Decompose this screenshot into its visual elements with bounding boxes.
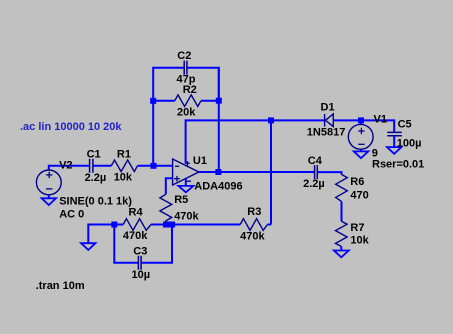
label D1 [321,101,335,113]
svg-text:R2: R2 [183,84,197,96]
wire op-amp V+ pin to supply rail [186,120,325,163]
svg-text:C3: C3 [133,246,147,258]
wire C2 top left [153,67,183,69]
svg-text:470k: 470k [240,231,265,243]
svg-text:470k: 470k [174,210,199,222]
label SINE value [59,195,132,207]
label Rser value V1 [372,159,424,171]
capacitor C5 [387,132,402,135]
wire R6 to R7 [341,201,343,221]
svg-text:C2: C2 [177,50,191,62]
wire feedback left vertical [152,68,154,166]
junction C3 right [169,222,175,228]
wire vertical rail to R3 [270,120,272,224]
svg-text:AC 0: AC 0 [59,209,84,221]
wire op-amp V- pin [185,179,187,186]
wire R7 ground stub [340,246,342,250]
capacitor C4 [315,165,318,179]
label R6 [350,176,364,188]
label C5 [398,118,412,130]
label R7 [350,222,364,234]
label 47p value [177,73,196,85]
wire R2 left lead [153,100,175,102]
wire V1 bottom stub [360,149,362,151]
svg-text:V1: V1 [374,114,387,126]
svg-text:U1: U1 [193,155,207,167]
svg-text:10k: 10k [114,172,133,184]
label C1 [87,148,101,160]
label R2 [183,84,197,96]
svg-text:R6: R6 [350,176,364,188]
label 2.2u value C1 [85,172,107,184]
diode D1 [325,114,334,127]
label R3 [247,206,261,218]
svg-text:SINE(0 0.1 1k): SINE(0 0.1 1k) [59,195,132,207]
label 470k value R5 [174,210,199,222]
label 9 value V1 [372,148,378,160]
junction R4 left [111,222,117,228]
label 2.2u value C4 [303,178,325,190]
junction op-amp output feedback [215,169,221,175]
label 10u value C3 [132,269,151,281]
ground op-amp V- [178,186,193,192]
wire op-amp output [199,171,314,173]
wire R4 ground stub [88,225,123,244]
ground C5 [387,147,401,154]
svg-text:V2: V2 [59,160,72,172]
wire V2 top to C1 [49,166,89,170]
directive .tran [36,280,85,292]
svg-text:100µ: 100µ [397,138,422,150]
op-amp U1 [173,159,199,185]
label R4 [129,207,144,219]
wire V2 bottom stub [48,195,50,198]
svg-text:D1: D1 [321,101,335,113]
label C3 [133,246,147,258]
wire R2 right lead [201,100,219,102]
svg-text:2.2µ: 2.2µ [303,178,325,190]
wire D1 to V1 to C5 [333,120,394,132]
wire to R3 [172,224,240,226]
svg-text:Rser=0.01: Rser=0.01 [372,159,424,171]
svg-text:2.2µ: 2.2µ [85,172,107,184]
resistor R3 [240,219,267,231]
voltage source V1 [348,124,373,149]
label U1 [193,155,207,167]
wire C2 top right [188,68,219,100]
capacitor C1 [90,159,93,173]
label ADA4096 value [194,181,242,193]
wire C5 bottom stub [393,136,395,147]
label V2 [59,160,72,172]
label R5 [174,194,188,206]
label 470k value R3 [240,231,265,243]
junction R5 bottom [163,222,169,228]
directive .ac [20,121,122,133]
ground V2 [42,198,56,205]
svg-text:470: 470 [350,190,368,202]
resistor R7 [336,221,348,246]
svg-text:ADA4096: ADA4096 [194,181,242,193]
label 100u value C5 [397,138,422,150]
svg-text:R5: R5 [174,194,188,206]
svg-text:R1: R1 [117,148,131,160]
label C4 [308,155,323,167]
label 10k value R1 [114,172,133,184]
svg-text:C4: C4 [308,155,323,167]
resistor R4 [123,219,151,231]
svg-text:C1: C1 [87,148,101,160]
junction supply rail at R3 [268,117,274,123]
ground R7 [334,251,349,258]
wire C3 loop [114,225,172,263]
label AC 0 value [59,209,84,221]
svg-text:470k: 470k [123,230,148,242]
voltage source V2 [36,170,61,195]
wire R3 right lead [268,224,272,226]
label R1 [117,148,131,160]
label 20k value [177,107,196,119]
svg-text:10µ: 10µ [132,269,151,281]
label C2 [177,50,191,62]
svg-text:20k: 20k [177,107,196,119]
ground R4 [81,243,95,250]
svg-text:C5: C5 [398,118,412,130]
resistor R6 [336,174,348,201]
capacitor C3 [138,256,141,270]
junction R2 right [216,98,222,104]
svg-text:R4: R4 [129,207,144,219]
junction supply rail at V1 [358,117,364,123]
wire R1 to op-amp inverting input [138,165,173,167]
svg-text:10k: 10k [350,235,369,247]
svg-text:R7: R7 [350,222,364,234]
svg-text:1N5817: 1N5817 [307,126,346,138]
label 470 value R6 [350,190,368,202]
svg-text:.tran 10m: .tran 10m [36,280,85,292]
junction R2 left [150,98,156,104]
wire feedback right vertical [218,68,220,172]
wire R4 right lead [151,224,172,226]
svg-text:R3: R3 [247,206,261,218]
wire V1 top stub [360,120,362,124]
wire C4 to R6 [318,172,342,174]
label 470k value R4 [123,230,148,242]
svg-text:.ac lin 10000 10 20k: .ac lin 10000 10 20k [20,121,122,133]
resistor R5 [160,194,172,224]
wire op-amp noninverting input to R5 [166,178,173,194]
ground V1 [354,151,368,158]
resistor R2 [175,95,201,107]
label 10k value R7 [350,235,369,247]
wire C1 to R1 [94,165,112,167]
label 1N5817 value [307,126,346,138]
capacitor C2 [184,61,187,75]
junction node at R1 op-amp input [151,163,157,169]
label V1 [374,114,387,126]
resistor R1 [111,160,137,172]
